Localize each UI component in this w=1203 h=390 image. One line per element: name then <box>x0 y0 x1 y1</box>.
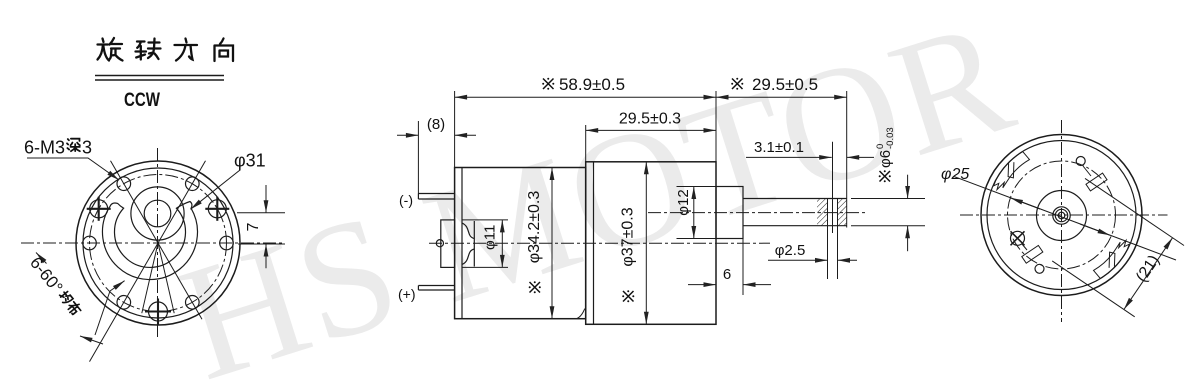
svg-text:3.1±0.1: 3.1±0.1 <box>754 139 804 156</box>
svg-text:(-): (-) <box>399 192 413 208</box>
svg-text:φ11: φ11 <box>481 225 498 250</box>
svg-text:3: 3 <box>82 138 92 158</box>
svg-text:(8): (8) <box>427 116 445 133</box>
svg-text:CCW: CCW <box>124 90 160 111</box>
svg-text:(+): (+) <box>398 286 416 302</box>
svg-text:φ6: φ6 <box>877 150 894 168</box>
svg-text:29.5±0.3: 29.5±0.3 <box>619 111 681 128</box>
svg-text:φ2.5: φ2.5 <box>775 242 806 259</box>
svg-text:φ25: φ25 <box>941 166 969 183</box>
svg-text:HS MOTOR: HS MOTOR <box>161 0 1032 390</box>
svg-text:(21): (21) <box>1133 252 1163 285</box>
svg-text:29.5±0.5: 29.5±0.5 <box>752 75 818 94</box>
svg-text:φ34.2±0.3: φ34.2±0.3 <box>526 191 543 264</box>
svg-text:φ37±0.3: φ37±0.3 <box>620 207 637 266</box>
svg-text:φ12: φ12 <box>675 189 692 215</box>
svg-text:58.9±0.5: 58.9±0.5 <box>559 75 625 94</box>
svg-text:6-60°: 6-60° <box>26 253 66 297</box>
svg-text:-0.03: -0.03 <box>885 127 896 149</box>
svg-text:φ31: φ31 <box>234 151 266 171</box>
svg-text:7: 7 <box>245 222 262 231</box>
svg-text:6: 6 <box>723 266 731 283</box>
svg-text:6-M3: 6-M3 <box>24 138 65 158</box>
